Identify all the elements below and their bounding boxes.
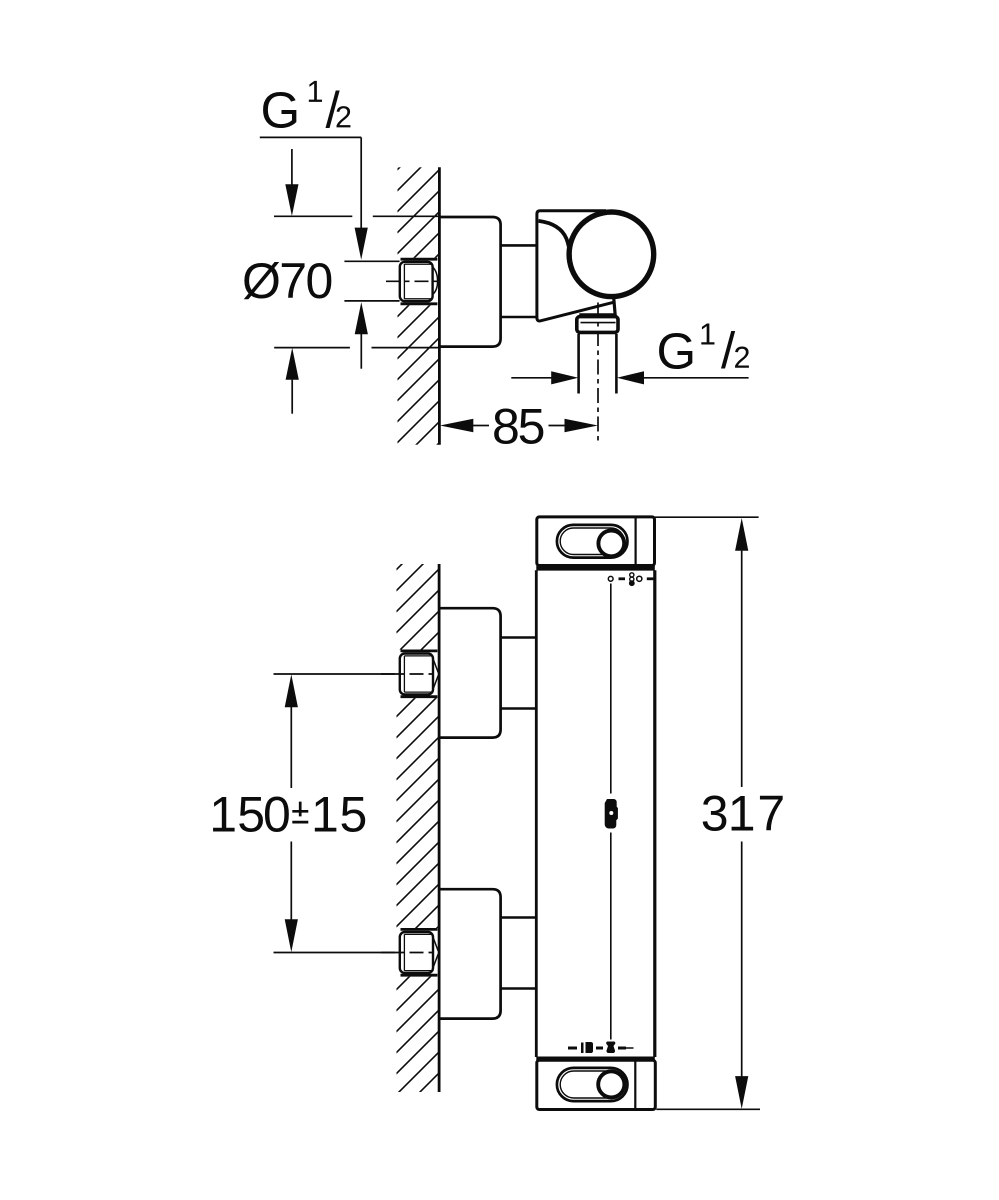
150 dimension upper extension line (274, 673, 401, 675)
hose G1/2 right arrow stem (644, 377, 749, 379)
150 dimension top stem (290, 707, 292, 788)
svg-text:3: 3 (701, 786, 729, 842)
dial marking dash 2 (647, 577, 654, 580)
dial marking dash 1 (619, 577, 626, 580)
bracket fillet curve (539, 221, 570, 258)
nipple 2 body (400, 932, 433, 973)
body top joint bold line (536, 566, 655, 571)
body right edge (653, 570, 656, 1057)
317 dimension lower extension line (656, 1108, 760, 1110)
bottom handle inner vertical line (634, 1060, 636, 1109)
knob circle (top figure) (569, 212, 654, 297)
hose G1/2 left arrow stem (511, 377, 552, 379)
nipple 2 cone lines (432, 935, 438, 970)
escutcheon (top figure) (439, 217, 501, 347)
bottom icon dash 2 (596, 1047, 603, 1050)
hose G1/2 right arrow left-pointing (617, 371, 644, 384)
nipple socket top bold line (top figure) (401, 258, 438, 261)
hose left line (577, 334, 580, 394)
150 dimension bottom stem (290, 842, 292, 921)
neck lines lower connection (501, 918, 537, 989)
body bottom joint bold line (536, 1056, 655, 1060)
svg-text:G: G (261, 82, 301, 139)
escutcheon 2 (bottom figure) (439, 889, 501, 1018)
wall hatch (top figure) (398, 167, 439, 444)
317 dimension top arrow up (735, 518, 748, 551)
O70 lower arrow up (286, 348, 299, 380)
top handle knob circle (598, 531, 624, 557)
dial marking 8 glyph (629, 573, 635, 586)
bottom handle pill outer (557, 1068, 628, 1101)
wall socket recess 1 (bottom figure) (394, 650, 438, 699)
brand glyph (605, 799, 618, 829)
svg-text:5: 5 (237, 786, 265, 842)
escutcheon 1 (bottom figure) (439, 608, 501, 737)
bottom icon glyph 2 (606, 1042, 615, 1054)
317 dimension bottom stem (741, 842, 743, 1077)
neck lower line (top figure) (501, 316, 537, 319)
G1/2 top leader vertical stem (360, 137, 362, 229)
svg-text:1: 1 (311, 786, 339, 842)
label G1/2 (top) (261, 81, 351, 139)
nipple lower extension line (G1/2) (344, 300, 399, 302)
wall line (bottom figure) (438, 564, 441, 1092)
svg-text:1: 1 (728, 786, 756, 842)
G1/2 bottom arrow up (355, 302, 368, 334)
fitting rim (580, 314, 614, 317)
svg-text:5: 5 (340, 786, 368, 842)
nipple 2 inner lines (404, 934, 431, 971)
label G1/2 (right) (657, 322, 749, 379)
bottom handle pill inner (560, 1071, 624, 1098)
nipple body (top figure) (400, 262, 433, 301)
neck upper line (top figure) (501, 244, 537, 247)
bottom icon dash 1 (568, 1047, 577, 1050)
hose G1/2 left arrow right-pointing (551, 371, 578, 384)
85 dimension left arrow (440, 419, 473, 433)
svg-text:Ø70: Ø70 (242, 253, 332, 309)
O70 lower arrow stem (291, 380, 293, 414)
150 dimension top arrow up (285, 674, 298, 707)
knob tail to fitting (614, 298, 616, 317)
O70 upper arrow stem (291, 149, 293, 186)
bracket body (top figure) (537, 211, 614, 321)
svg-text:1: 1 (209, 786, 237, 842)
svg-text:7: 7 (757, 786, 785, 842)
wall line (top figure) (438, 167, 441, 444)
85 dimension left stem (473, 425, 489, 427)
nipple 2 socket bold lines (401, 929, 438, 975)
bottom handle knob circle (598, 1071, 624, 1097)
bottom handle block (537, 1060, 656, 1109)
bottom icon glyph 1 (581, 1042, 593, 1053)
nipple inner lines (top figure) (404, 264, 431, 299)
nipple thread arc (top figure) (432, 267, 437, 295)
nipple socket bottom bold line (top figure) (401, 302, 438, 305)
neck lines upper connection (501, 638, 537, 709)
wall socket recess (top figure) (394, 258, 438, 305)
body center thin line lower (610, 833, 612, 1040)
150 dimension bottom arrow down (285, 919, 298, 952)
nipple 1 socket bold lines (401, 651, 438, 697)
nipple 1 body (400, 654, 433, 695)
dial marking ring 1 (608, 576, 613, 581)
317 dimension bottom arrow down (735, 1076, 748, 1109)
nipple 1 cone lines (432, 657, 438, 692)
nipple centerline (top figure) (386, 280, 438, 282)
svg-text:85: 85 (492, 399, 544, 455)
top handle inner vertical line (634, 517, 636, 566)
O70 lower extension line (274, 347, 439, 349)
fitting collar inner line (581, 322, 616, 324)
svg-text:0: 0 (263, 786, 291, 842)
G1/2 bottom arrow stem (360, 334, 362, 369)
G1/2 top arrow down (355, 228, 368, 260)
hose centerline (597, 303, 599, 444)
fitting collar (577, 317, 618, 333)
317 dimension upper extension line (655, 516, 759, 518)
svg-text:G: G (657, 322, 697, 379)
85 dimension right arrow (565, 419, 598, 433)
G1/2 top leader horizontal (260, 136, 361, 138)
bottom icon dash 3 (618, 1047, 626, 1050)
nipple 1 inner lines (404, 656, 431, 693)
body center thin line upper (610, 584, 612, 794)
top handle pill outer (557, 525, 628, 558)
O70 upper extension line (274, 215, 439, 217)
top handle pill inner (560, 528, 624, 555)
317 dimension top stem (741, 551, 743, 787)
85 dimension right stem (549, 425, 566, 427)
top handle block (537, 517, 655, 566)
body left edge (535, 570, 538, 1057)
nipple 2 centerline (381, 952, 438, 954)
wall socket recess 2 (bottom figure) (394, 928, 438, 977)
dial marking ring 2 (637, 576, 642, 581)
nipple 1 centerline (381, 673, 438, 675)
nipple upper extension line (G1/2) (344, 260, 399, 262)
150 dimension lower extension line (274, 952, 401, 954)
hose right line (615, 334, 618, 394)
wall hatch (bottom figure) (397, 564, 439, 1092)
O70 upper arrow down (285, 184, 298, 216)
svg-text:/: / (721, 322, 736, 379)
